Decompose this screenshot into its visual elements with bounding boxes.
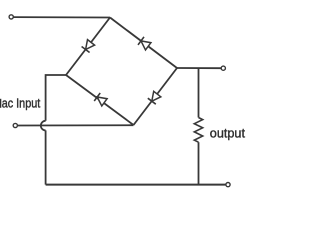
wire: top AC lead from input terminal to bridge top vertex <box>13 16 110 18</box>
diode D2 on top-right arm, cathode toward top vertex <box>138 37 151 50</box>
wire: bridge arm top vertex to right vertex <box>110 18 177 69</box>
svg-text:ac Input: ac Input <box>2 97 41 111</box>
diode D4 on bottom-right arm, cathode toward bottom vertex <box>148 91 161 104</box>
wire: bridge arm left vertex to bottom vertex <box>66 75 134 125</box>
wire: bridge arm bottom vertex to right vertex <box>134 68 178 125</box>
wire: left branch continues down to bottom rail <box>45 130 47 184</box>
wire hop: left branch crosses AC lead without connection <box>41 121 46 131</box>
wire: bridge arm left vertex to top vertex <box>66 18 110 76</box>
resistor: output load <box>194 118 202 143</box>
label: ac Input <box>2 97 41 111</box>
diode D1 on left-top arm, cathode toward left vertex <box>82 40 95 53</box>
wire: output branch down to resistor top <box>198 68 200 118</box>
wire: lower AC lead from input terminal to bridge bottom vertex <box>18 124 134 126</box>
svg-text:output: output <box>210 126 246 141</box>
diode D3 on left-bottom arm, cathode toward left vertex <box>94 93 107 106</box>
clipped character fragment at left edge <box>0 99 2 108</box>
terminal: output (bottom-right) <box>226 183 230 187</box>
wire: resistor bottom to bottom rail <box>198 142 200 184</box>
terminal: output (top-right) <box>221 66 225 70</box>
terminal: AC input (top-left) <box>9 15 13 19</box>
label: output <box>210 126 246 141</box>
wire: bottom rail to output terminal <box>46 184 226 186</box>
terminal: AC input (middle-left) <box>13 123 17 127</box>
wire: right vertex to output terminal <box>177 67 221 69</box>
wire: left vertex bend (left then down) <box>46 75 66 121</box>
